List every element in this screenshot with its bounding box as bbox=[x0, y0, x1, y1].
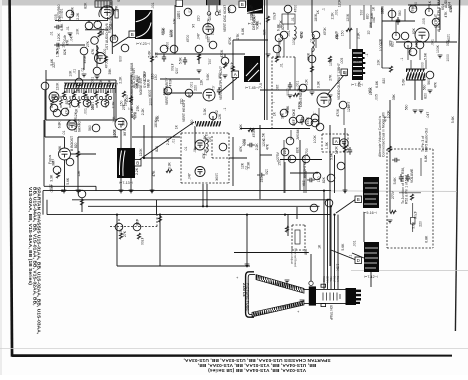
svg-text:.01: .01 bbox=[245, 166, 249, 171]
svg-text:.01: .01 bbox=[73, 69, 77, 74]
svg-text:220: 220 bbox=[419, 221, 423, 227]
svg-text:2.2K: 2.2K bbox=[76, 12, 80, 20]
svg-text:10K: 10K bbox=[329, 59, 333, 66]
svg-text:10K: 10K bbox=[173, 18, 177, 25]
svg-text:6.8K: 6.8K bbox=[203, 134, 207, 142]
svg-text:⊢Y-23⊣: ⊢Y-23⊣ bbox=[136, 42, 150, 46]
svg-text:39K: 39K bbox=[281, 112, 285, 119]
svg-text:47K: 47K bbox=[152, 170, 156, 177]
svg-text:39K: 39K bbox=[108, 68, 112, 75]
svg-text:1.5K: 1.5K bbox=[325, 141, 329, 149]
svg-text:120K: 120K bbox=[337, 0, 341, 7]
svg-text:120K: 120K bbox=[208, 12, 212, 21]
svg-text:39K: 39K bbox=[369, 21, 373, 28]
svg-text:10K: 10K bbox=[57, 43, 61, 50]
svg-text:47K: 47K bbox=[239, 145, 243, 152]
svg-text:1K: 1K bbox=[372, 6, 376, 11]
svg-text:4700: 4700 bbox=[50, 185, 54, 193]
svg-text:AUDIO OUTPUT 6AM8GT: AUDIO OUTPUT 6AM8GT bbox=[437, 0, 441, 32]
svg-text:150: 150 bbox=[264, 169, 268, 175]
svg-text:VERT LINEARITY: VERT LINEARITY bbox=[165, 77, 169, 105]
svg-text:220: 220 bbox=[194, 85, 198, 91]
svg-text:.047: .047 bbox=[426, 112, 430, 119]
svg-text:6.8K: 6.8K bbox=[57, 121, 61, 129]
svg-text:10K: 10K bbox=[368, 88, 372, 95]
svg-text:YEL: YEL bbox=[329, 276, 333, 282]
svg-text:.047: .047 bbox=[69, 35, 73, 42]
svg-text:.01: .01 bbox=[291, 17, 295, 22]
svg-text:1000: 1000 bbox=[420, 62, 424, 70]
svg-text:82K: 82K bbox=[296, 146, 300, 153]
svg-text:1K: 1K bbox=[428, 0, 432, 5]
svg-text:100K: 100K bbox=[292, 36, 296, 45]
svg-text:4700: 4700 bbox=[294, 5, 298, 13]
svg-text:.01: .01 bbox=[310, 38, 314, 43]
svg-text:4700: 4700 bbox=[334, 31, 338, 39]
svg-text:47K: 47K bbox=[434, 81, 438, 88]
svg-text:2.2K: 2.2K bbox=[118, 76, 122, 84]
svg-text:1.5K: 1.5K bbox=[335, 264, 339, 272]
svg-text:5.6K: 5.6K bbox=[393, 177, 397, 185]
svg-text:R52 & Pin 1 of 6S4: R52 & Pin 1 of 6S4 bbox=[405, 175, 409, 204]
svg-text:820: 820 bbox=[366, 14, 370, 20]
svg-text:DEF YOKE: DEF YOKE bbox=[292, 108, 296, 126]
svg-text:.001: .001 bbox=[84, 108, 88, 115]
svg-text:.047: .047 bbox=[187, 92, 191, 99]
svg-text:.001: .001 bbox=[287, 30, 291, 37]
svg-text:6BU8: 6BU8 bbox=[147, 79, 151, 88]
svg-text:1K: 1K bbox=[316, 9, 320, 14]
svg-text:82K: 82K bbox=[304, 248, 308, 255]
svg-text:3.3K: 3.3K bbox=[357, 32, 361, 40]
svg-text:1K: 1K bbox=[273, 111, 277, 116]
svg-text:6.8K: 6.8K bbox=[58, 145, 62, 153]
svg-text:100K: 100K bbox=[381, 6, 385, 15]
svg-text:.02: .02 bbox=[215, 110, 219, 115]
svg-text:5.6K: 5.6K bbox=[148, 50, 152, 58]
svg-text:220: 220 bbox=[445, 41, 449, 47]
svg-text:27K: 27K bbox=[86, 40, 90, 47]
svg-text:.001: .001 bbox=[207, 58, 211, 65]
svg-text:12K: 12K bbox=[378, 38, 382, 45]
svg-text:Connected Dual in Model with: Connected Dual in Model with bbox=[382, 112, 386, 157]
svg-text:10K: 10K bbox=[76, 28, 80, 35]
svg-text:.001: .001 bbox=[430, 39, 434, 46]
svg-text:470K: 470K bbox=[323, 27, 327, 36]
svg-text:.005: .005 bbox=[118, 55, 122, 62]
svg-text:.01: .01 bbox=[193, 148, 197, 153]
svg-text:82K: 82K bbox=[155, 145, 159, 152]
svg-text:.1: .1 bbox=[400, 58, 404, 61]
svg-text:3.3K: 3.3K bbox=[203, 107, 207, 115]
svg-text:150: 150 bbox=[275, 84, 279, 90]
svg-text:5.6K: 5.6K bbox=[107, 79, 111, 87]
svg-text:6.8K: 6.8K bbox=[60, 23, 64, 31]
svg-text:120K: 120K bbox=[346, 13, 350, 22]
svg-text:12K: 12K bbox=[77, 170, 81, 177]
svg-text:27K: 27K bbox=[114, 5, 118, 12]
svg-text:470K: 470K bbox=[279, 19, 283, 28]
svg-text:560: 560 bbox=[76, 86, 80, 92]
svg-text:39K: 39K bbox=[392, 94, 396, 101]
svg-text:470K: 470K bbox=[252, 129, 256, 138]
svg-text:B: B bbox=[131, 32, 134, 37]
svg-text:560: 560 bbox=[121, 120, 125, 126]
svg-text:4700: 4700 bbox=[306, 117, 310, 125]
svg-text:4700: 4700 bbox=[423, 73, 427, 81]
svg-text:10K: 10K bbox=[304, 79, 308, 86]
svg-text:Terminal Board: Terminal Board bbox=[294, 248, 298, 267]
svg-text:.001: .001 bbox=[353, 240, 357, 247]
svg-text:82K: 82K bbox=[412, 27, 416, 34]
svg-text:A: A bbox=[335, 139, 338, 144]
svg-text:120K: 120K bbox=[169, 29, 173, 38]
svg-text:560: 560 bbox=[88, 125, 92, 131]
svg-text:.01: .01 bbox=[81, 68, 85, 73]
svg-text:150: 150 bbox=[154, 74, 158, 80]
svg-text:Focus Adjust: Focus Adjust bbox=[290, 248, 294, 264]
svg-text:4700: 4700 bbox=[272, 12, 276, 20]
svg-text:CONTRAST: CONTRAST bbox=[299, 88, 303, 107]
svg-text:6T8: 6T8 bbox=[134, 112, 138, 118]
svg-text:150: 150 bbox=[317, 176, 321, 182]
svg-text:100K: 100K bbox=[436, 44, 440, 53]
svg-text:.005: .005 bbox=[422, 18, 426, 25]
svg-text:4700: 4700 bbox=[65, 107, 69, 115]
svg-text:1000: 1000 bbox=[166, 42, 170, 50]
svg-text:2.2K: 2.2K bbox=[330, 12, 334, 20]
svg-text:820: 820 bbox=[382, 78, 386, 84]
svg-text:27K: 27K bbox=[122, 103, 126, 110]
svg-text:.005: .005 bbox=[375, 94, 379, 101]
svg-text:470K: 470K bbox=[169, 78, 173, 87]
svg-text:180K: 180K bbox=[314, 13, 318, 22]
svg-text:3.3K: 3.3K bbox=[167, 161, 171, 169]
svg-text:4700: 4700 bbox=[229, 62, 233, 70]
svg-text:21ATL4: 21ATL4 bbox=[242, 283, 246, 297]
svg-text:12BH7: 12BH7 bbox=[347, 102, 351, 112]
svg-text:560: 560 bbox=[423, 85, 427, 91]
svg-text:.01: .01 bbox=[188, 9, 192, 14]
svg-text:.005: .005 bbox=[340, 58, 344, 65]
svg-text:560: 560 bbox=[405, 105, 409, 111]
svg-text:⊢7-45⊣: ⊢7-45⊣ bbox=[245, 86, 259, 90]
svg-text:V1S-03AA, BB, V1S-04AA, BB (1B: V1S-03AA, BB, V1S-04AA, BB (1B Series) bbox=[208, 367, 306, 373]
svg-text:6.8K: 6.8K bbox=[85, 93, 89, 101]
svg-text:10K: 10K bbox=[112, 116, 116, 123]
svg-text:2.2K: 2.2K bbox=[111, 101, 115, 109]
svg-text:5.6K: 5.6K bbox=[50, 58, 54, 66]
svg-text:470K: 470K bbox=[228, 36, 232, 45]
svg-text:.1: .1 bbox=[313, 112, 317, 115]
svg-text:.02: .02 bbox=[205, 35, 209, 40]
svg-text:5.6K: 5.6K bbox=[341, 243, 345, 251]
svg-text:1000: 1000 bbox=[446, 54, 450, 62]
svg-text:6.8K: 6.8K bbox=[425, 235, 429, 243]
svg-text:.01: .01 bbox=[279, 63, 283, 68]
svg-text:.001: .001 bbox=[359, 9, 363, 16]
svg-text:820: 820 bbox=[423, 93, 427, 99]
svg-text:6.8K: 6.8K bbox=[375, 80, 379, 88]
svg-text:3.3K: 3.3K bbox=[317, 80, 321, 88]
svg-text:JW084: JW084 bbox=[296, 129, 300, 140]
svg-text:47K: 47K bbox=[228, 7, 232, 14]
svg-text:470K: 470K bbox=[220, 49, 224, 58]
svg-text:220: 220 bbox=[177, 13, 181, 19]
svg-text:470K: 470K bbox=[336, 108, 340, 117]
svg-text:.1: .1 bbox=[349, 255, 353, 258]
svg-text:.047: .047 bbox=[197, 33, 201, 40]
svg-text:BLK: BLK bbox=[336, 276, 340, 282]
svg-text:10K: 10K bbox=[376, 59, 380, 66]
svg-text:.001: .001 bbox=[151, 2, 155, 9]
svg-text:560: 560 bbox=[398, 10, 402, 16]
svg-text:B: B bbox=[357, 197, 360, 202]
svg-text:12K: 12K bbox=[200, 79, 204, 86]
svg-text:.02: .02 bbox=[367, 30, 371, 35]
svg-text:47K: 47K bbox=[444, 11, 448, 18]
svg-text:⊢9-16⊣: ⊢9-16⊣ bbox=[363, 211, 377, 215]
svg-text:4700: 4700 bbox=[140, 238, 144, 246]
svg-text:1K: 1K bbox=[191, 24, 195, 29]
svg-text:39K: 39K bbox=[302, 180, 306, 187]
svg-text:180K: 180K bbox=[99, 26, 103, 35]
svg-text:6.8K: 6.8K bbox=[241, 27, 245, 35]
svg-text:.1: .1 bbox=[115, 82, 119, 85]
svg-text:4700: 4700 bbox=[186, 35, 190, 43]
svg-text:1K: 1K bbox=[74, 108, 78, 113]
svg-text:2.2K: 2.2K bbox=[135, 167, 139, 175]
svg-text:220: 220 bbox=[283, 149, 287, 155]
svg-text:120K: 120K bbox=[57, 32, 61, 41]
svg-text:.1: .1 bbox=[365, 54, 369, 57]
svg-text:.001: .001 bbox=[91, 77, 95, 84]
svg-text:120K: 120K bbox=[139, 148, 143, 157]
svg-text:1.5K: 1.5K bbox=[261, 132, 265, 140]
svg-text:RED: RED bbox=[322, 276, 326, 283]
svg-text:820: 820 bbox=[391, 41, 395, 47]
svg-text:5.6K: 5.6K bbox=[67, 121, 71, 129]
svg-text:4700: 4700 bbox=[62, 35, 66, 43]
svg-text:SOUND DISC 6T8: SOUND DISC 6T8 bbox=[109, 2, 113, 30]
svg-text:2.2K: 2.2K bbox=[166, 137, 170, 145]
svg-text:BLU: BLU bbox=[333, 276, 337, 282]
svg-text:.001: .001 bbox=[335, 9, 339, 16]
svg-text:100K: 100K bbox=[91, 102, 95, 111]
svg-text:47K: 47K bbox=[91, 48, 95, 55]
svg-text:560: 560 bbox=[285, 108, 289, 114]
svg-text:220: 220 bbox=[196, 15, 200, 21]
svg-text:5.6K: 5.6K bbox=[402, 78, 406, 86]
svg-text:27K: 27K bbox=[156, 115, 160, 122]
svg-text:SOUND IF 6AU6: SOUND IF 6AU6 bbox=[117, 0, 121, 2]
svg-text:VIDEO OUTPUT 12BH7: VIDEO OUTPUT 12BH7 bbox=[337, 63, 341, 100]
svg-text:47K: 47K bbox=[409, 49, 413, 56]
svg-text:27K: 27K bbox=[123, 230, 127, 237]
svg-text:.01: .01 bbox=[184, 146, 188, 151]
svg-text:.01: .01 bbox=[62, 130, 66, 135]
svg-text:4700: 4700 bbox=[105, 61, 109, 69]
svg-text:100K: 100K bbox=[211, 27, 215, 36]
svg-text:V1S-03AA, BB, V1S-04AA, BB (1B: V1S-03AA, BB, V1S-04AA, BB (1B Series) bbox=[27, 187, 33, 285]
svg-text:.001: .001 bbox=[208, 136, 212, 143]
svg-text:150: 150 bbox=[340, 30, 344, 36]
svg-text:27K: 27K bbox=[236, 33, 240, 40]
svg-text:120K: 120K bbox=[307, 52, 311, 61]
svg-text:.1: .1 bbox=[223, 108, 227, 111]
svg-text:6.8K: 6.8K bbox=[424, 154, 428, 162]
svg-text:.1: .1 bbox=[70, 13, 74, 16]
svg-text:10K: 10K bbox=[357, 81, 361, 88]
svg-text:1.5K: 1.5K bbox=[56, 50, 60, 58]
svg-text:1000: 1000 bbox=[414, 2, 418, 10]
svg-text:82K: 82K bbox=[84, 2, 88, 9]
svg-text:4700: 4700 bbox=[170, 64, 174, 72]
svg-text:ION TRAP: ION TRAP bbox=[329, 305, 333, 320]
svg-text:5.6K: 5.6K bbox=[178, 56, 182, 64]
svg-text:⊢7-12⊣: ⊢7-12⊣ bbox=[364, 275, 378, 279]
svg-text:3.3K: 3.3K bbox=[50, 174, 54, 182]
svg-text:27K: 27K bbox=[356, 55, 360, 62]
svg-text:.001: .001 bbox=[295, 81, 299, 88]
svg-text:B: B bbox=[241, 2, 244, 7]
svg-text:820: 820 bbox=[74, 143, 78, 149]
svg-text:Focus: Focus bbox=[48, 154, 52, 164]
svg-text:6BF5 Audio Out: 6BF5 Audio Out bbox=[425, 128, 429, 152]
svg-text:.1: .1 bbox=[271, 101, 275, 104]
svg-text:+275V: +275V bbox=[276, 151, 280, 162]
svg-text:5.6K: 5.6K bbox=[451, 115, 455, 123]
svg-text:1ST AUDIO 6AV6: 1ST AUDIO 6AV6 bbox=[105, 23, 109, 50]
svg-text:.01: .01 bbox=[49, 31, 53, 36]
svg-text:2.2K: 2.2K bbox=[141, 108, 145, 116]
svg-text:⊢7-13⊣: ⊢7-13⊣ bbox=[119, 181, 133, 185]
svg-text:270V: 270V bbox=[391, 190, 395, 199]
svg-text:180K: 180K bbox=[335, 146, 339, 155]
svg-text:12K: 12K bbox=[262, 29, 266, 36]
svg-text:.1: .1 bbox=[322, 8, 326, 11]
svg-text:4700: 4700 bbox=[305, 148, 309, 156]
svg-text:VERT HEIGHT: VERT HEIGHT bbox=[182, 99, 186, 122]
svg-text:82K: 82K bbox=[322, 176, 326, 183]
svg-text:220: 220 bbox=[344, 71, 348, 77]
svg-text:10K: 10K bbox=[154, 52, 158, 59]
svg-text:150: 150 bbox=[260, 177, 264, 183]
svg-text:27K: 27K bbox=[328, 74, 332, 81]
svg-text:.005: .005 bbox=[410, 5, 414, 12]
svg-text:6S4: 6S4 bbox=[448, 2, 452, 8]
svg-text:47K: 47K bbox=[265, 143, 269, 150]
svg-text:82K: 82K bbox=[327, 99, 331, 106]
svg-text:VERT OSC 6CM7: VERT OSC 6CM7 bbox=[223, 5, 227, 32]
svg-text:.01: .01 bbox=[66, 26, 70, 31]
svg-text:220: 220 bbox=[249, 62, 253, 68]
svg-text:AV DET OUTPUT: AV DET OUTPUT bbox=[130, 91, 134, 118]
svg-text:.047: .047 bbox=[278, 38, 282, 45]
svg-text:6.8K: 6.8K bbox=[123, 129, 127, 137]
svg-text:1K: 1K bbox=[175, 124, 179, 129]
svg-text:AGC KEYER 6BU8: AGC KEYER 6BU8 bbox=[130, 63, 134, 92]
svg-text:4700: 4700 bbox=[299, 31, 303, 39]
svg-text:12K: 12K bbox=[239, 124, 243, 131]
svg-text:.005: .005 bbox=[112, 130, 116, 137]
svg-text:.001: .001 bbox=[190, 82, 194, 89]
svg-text:180K: 180K bbox=[99, 78, 103, 87]
svg-text:120K: 120K bbox=[414, 38, 418, 47]
svg-text:1000: 1000 bbox=[286, 88, 290, 96]
svg-text:5.6K: 5.6K bbox=[66, 177, 70, 185]
svg-text:120K: 120K bbox=[56, 82, 60, 91]
svg-text:B: B bbox=[136, 161, 139, 166]
svg-text:39K: 39K bbox=[162, 27, 166, 34]
svg-text:100K: 100K bbox=[148, 90, 152, 99]
svg-text:47K: 47K bbox=[218, 9, 222, 16]
svg-text:100K: 100K bbox=[214, 173, 218, 182]
svg-text:820: 820 bbox=[65, 99, 69, 105]
svg-text:560: 560 bbox=[427, 79, 431, 85]
svg-text:82K: 82K bbox=[63, 48, 67, 55]
svg-text:273V: 273V bbox=[57, 9, 61, 18]
svg-text:47K: 47K bbox=[202, 152, 206, 159]
svg-text:39K: 39K bbox=[113, 33, 117, 40]
svg-text:.047: .047 bbox=[187, 173, 191, 180]
svg-text:1000: 1000 bbox=[149, 98, 153, 106]
svg-text:BRIGHTNESS: BRIGHTNESS bbox=[303, 155, 307, 178]
svg-text:470K: 470K bbox=[83, 55, 87, 64]
svg-text:1K: 1K bbox=[318, 244, 322, 249]
svg-text:5.6K: 5.6K bbox=[330, 152, 334, 160]
svg-text:VERT OUTPUT 6CM7: VERT OUTPUT 6CM7 bbox=[219, 66, 223, 100]
svg-text:82K: 82K bbox=[288, 155, 292, 162]
svg-text:.01: .01 bbox=[172, 139, 176, 144]
svg-text:5.6K: 5.6K bbox=[423, 52, 427, 60]
svg-text:B BOOST: B BOOST bbox=[70, 136, 74, 151]
svg-text:A: A bbox=[234, 72, 237, 77]
svg-text:.01: .01 bbox=[211, 85, 215, 90]
svg-text:7-5: 7-5 bbox=[259, 83, 263, 88]
svg-text:27K: 27K bbox=[136, 105, 140, 112]
svg-text:100K: 100K bbox=[313, 135, 317, 144]
svg-text:GRN: GRN bbox=[326, 276, 330, 283]
svg-text:5.6K: 5.6K bbox=[206, 73, 210, 81]
svg-text:2.2K: 2.2K bbox=[255, 143, 259, 151]
svg-text:150: 150 bbox=[61, 42, 65, 48]
svg-text:820: 820 bbox=[243, 139, 247, 145]
svg-text:YOKE: YOKE bbox=[256, 20, 260, 30]
svg-text:6AX4GT: 6AX4GT bbox=[78, 119, 82, 132]
svg-text:560: 560 bbox=[190, 120, 194, 126]
svg-text:VOLUME: VOLUME bbox=[410, 168, 414, 183]
svg-text:820: 820 bbox=[135, 220, 139, 226]
